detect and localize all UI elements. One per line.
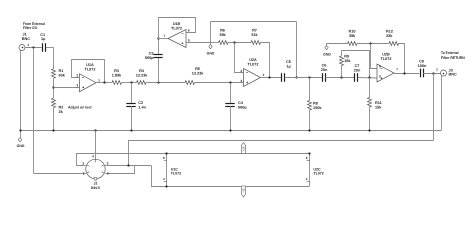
capacitor C6 — [322, 73, 324, 82]
resistor R2 adjust — [52, 98, 56, 108]
svg-text:GND: GND — [17, 144, 25, 148]
svg-text:4: 4 — [92, 155, 94, 159]
node gnd rail taps — [19, 129, 21, 131]
svg-text:C7: C7 — [355, 64, 360, 68]
ground G1 — [20, 131, 22, 138]
wire R10 to R12 — [357, 43, 389, 45]
wire U1B output to node — [158, 38, 168, 40]
svg-text:R12: R12 — [386, 29, 393, 33]
svg-text:R2: R2 — [59, 106, 64, 110]
svg-text:39k: 39k — [349, 34, 356, 38]
node C2 tap — [130, 81, 132, 83]
svg-text:R8: R8 — [313, 101, 318, 105]
svg-text:5: 5 — [107, 162, 109, 166]
ground G2 — [210, 42, 212, 44]
ground G3 — [326, 43, 328, 45]
svg-text:GND: GND — [323, 53, 331, 57]
wire return tap down to return rail — [433, 73, 435, 141]
resistor R8 — [309, 78, 311, 101]
wire R12 to U2B output — [399, 44, 405, 74]
resistor R5 — [185, 81, 194, 85]
node C3 tap — [157, 81, 159, 83]
svg-text:2: 2 — [240, 69, 242, 73]
resistor R3 — [112, 81, 122, 85]
svg-text:5: 5 — [188, 38, 190, 42]
svg-text:C5: C5 — [286, 60, 291, 64]
wire node to U1A pin3 — [54, 87, 80, 89]
svg-text:DIN-5: DIN-5 — [91, 186, 100, 190]
wire U1A feedback loop — [72, 60, 105, 83]
svg-text:39k: 39k — [219, 33, 226, 37]
svg-text:Filter GO: Filter GO — [23, 26, 37, 30]
wire R7 to U2A output — [261, 43, 270, 78]
wire C3 branch vertical — [158, 58, 160, 83]
capacitor C8 — [420, 69, 422, 78]
svg-text:R1: R1 — [59, 69, 64, 73]
svg-text:13.23k: 13.23k — [192, 72, 205, 76]
svg-text:20n: 20n — [321, 68, 328, 72]
op-amp U1B TL072 mirrored — [168, 30, 186, 48]
svg-text:R9: R9 — [344, 54, 349, 58]
svg-text:U1B: U1B — [173, 22, 181, 26]
svg-text:15k: 15k — [375, 106, 382, 110]
svg-text:6: 6 — [188, 28, 190, 32]
svg-text:1: 1 — [436, 68, 438, 72]
wire din top pin to ground rail — [95, 131, 97, 160]
wire U1B feedback loop — [159, 18, 196, 39]
connector J3 BNC — [441, 70, 447, 76]
svg-text:100n: 100n — [418, 64, 427, 68]
op-amp U1C power pins — [166, 154, 168, 187]
svg-text:60k: 60k — [59, 73, 66, 77]
resistor R7 — [251, 41, 261, 45]
capacitor C7 — [354, 73, 356, 82]
wire R6 to R7 — [228, 42, 251, 44]
svg-text:15k: 15k — [344, 59, 351, 63]
svg-text:R10: R10 — [349, 29, 356, 33]
svg-text:U2A: U2A — [249, 58, 257, 62]
svg-text:C6: C6 — [322, 63, 327, 67]
wire U2B output — [394, 73, 419, 75]
svg-text:1.4n: 1.4n — [138, 106, 146, 110]
svg-text:1: 1 — [83, 172, 85, 176]
resistor R4 — [137, 81, 146, 85]
svg-text:TL072: TL072 — [171, 172, 181, 176]
svg-text:R11: R11 — [375, 101, 382, 105]
wire din pin1 to input column — [34, 173, 86, 175]
svg-text:TL072: TL072 — [171, 26, 182, 30]
resistor R9 — [341, 66, 343, 78]
wire J1 to C1 — [25, 47, 42, 49]
wire C1 to R1 top — [46, 47, 54, 49]
wire R8 to ground rail — [309, 110, 311, 131]
svg-text:5: 5 — [379, 74, 381, 78]
svg-text:13.23k: 13.23k — [136, 73, 149, 77]
wire R11 to ground rail — [369, 107, 371, 131]
wire C6 to C7 — [325, 77, 354, 79]
op-amp U2B TL072 — [377, 64, 394, 82]
svg-text:7: 7 — [396, 68, 398, 72]
svg-text:U2C: U2C — [313, 167, 321, 171]
wire R5 to U2A — [195, 82, 244, 84]
node R11 tap — [368, 76, 370, 78]
resistor R6 — [219, 41, 228, 45]
svg-text:3: 3 — [107, 172, 109, 176]
svg-text:J2: J2 — [94, 182, 98, 186]
capacitor C3 — [153, 54, 162, 56]
resistor R1 — [52, 69, 56, 79]
op-amp U1A TL072 — [80, 74, 97, 92]
connector J2 DIN-5 — [86, 159, 105, 178]
node top rail tap — [295, 76, 297, 78]
node U1A output — [103, 81, 105, 83]
svg-text:1: 1 — [263, 73, 265, 77]
wire input node down to DIN pin1 — [33, 48, 35, 174]
svg-text:150k: 150k — [313, 106, 322, 110]
svg-text:1µ: 1µ — [41, 37, 45, 41]
power flag +15 — [241, 143, 245, 154]
wire top rail left drop — [210, 22, 212, 43]
svg-text:-15: -15 — [241, 188, 245, 193]
svg-text:C3: C3 — [149, 52, 154, 56]
node C4 tap — [229, 81, 231, 83]
wire C5 to C6 — [285, 77, 322, 79]
wire ground rail — [20, 130, 441, 132]
node J3 return tap — [432, 72, 434, 74]
svg-text:7: 7 — [163, 34, 165, 38]
svg-text:C8: C8 — [419, 59, 424, 63]
svg-text:1µ: 1µ — [286, 64, 290, 68]
wire gnd to R10 — [327, 43, 348, 45]
svg-text:6: 6 — [379, 64, 381, 68]
node R12 tap on output — [403, 72, 405, 74]
svg-text:TL072: TL072 — [313, 172, 323, 176]
node input junction — [32, 46, 34, 48]
capacitor C4 — [230, 83, 232, 103]
wire top rail right drop — [296, 22, 298, 78]
svg-text:Filter RETURN: Filter RETURN — [441, 56, 465, 60]
wire R4 to R5 — [146, 82, 185, 84]
wire return rail — [105, 165, 151, 167]
svg-text:3: 3 — [76, 84, 78, 88]
node U1B output — [157, 37, 159, 39]
power flag -15 — [241, 186, 245, 197]
svg-text:BNC: BNC — [449, 72, 457, 76]
svg-text:R5: R5 — [195, 67, 200, 71]
resistor R11 — [369, 78, 371, 98]
node R6 R7 junction — [233, 41, 235, 43]
node U1A noninverting input — [52, 86, 54, 88]
svg-text:U2B: U2B — [382, 52, 390, 56]
svg-text:3: 3 — [240, 79, 242, 83]
svg-text:GND: GND — [207, 51, 215, 55]
svg-text:1: 1 — [27, 43, 29, 47]
wire vminus rail — [106, 166, 135, 174]
svg-text:560p: 560p — [238, 106, 247, 110]
svg-text:1: 1 — [98, 78, 100, 82]
wire R9 bridge over C7 — [342, 51, 370, 78]
svg-text:U1C: U1C — [171, 167, 179, 171]
wire C8 to J3 — [423, 73, 440, 75]
wire U1A output — [96, 82, 112, 84]
svg-text:U1A: U1A — [86, 63, 94, 67]
capacitor C5 — [281, 73, 283, 82]
op-amp U2C power pins — [309, 154, 311, 187]
svg-text:R6: R6 — [220, 28, 225, 32]
wire vplus rail — [77, 154, 310, 166]
svg-text:To External: To External — [441, 51, 459, 55]
svg-text:R7: R7 — [252, 28, 257, 32]
wire junction down to U2B pin6 — [371, 44, 378, 69]
wire J3 shield down — [441, 76, 442, 78]
node R10 R12 junction — [369, 42, 371, 44]
wire gnd node to R6 — [211, 42, 219, 44]
connector J1 BNC — [19, 45, 25, 51]
wire C7 to U2B — [358, 77, 377, 80]
wire top rail — [211, 21, 297, 23]
svg-text:C2: C2 — [138, 101, 143, 105]
wire R2 to ground rail — [53, 108, 55, 131]
capacitor C2 — [131, 83, 133, 103]
resistor R10 — [348, 42, 358, 46]
wire U1B pin5 to gnd node — [186, 42, 211, 44]
svg-text:+15: +15 — [241, 146, 245, 151]
svg-text:TL072: TL072 — [85, 68, 96, 72]
svg-text:BNC: BNC — [22, 37, 30, 41]
node R9 tap — [340, 76, 342, 78]
node R8 tap — [308, 76, 310, 78]
wire U2A output — [261, 77, 282, 79]
svg-text:Adjust on test: Adjust on test — [68, 106, 92, 110]
svg-text:2: 2 — [76, 74, 78, 78]
op-amp U2A TL072 — [244, 69, 261, 87]
svg-text:51k: 51k — [251, 33, 258, 37]
svg-text:20n: 20n — [354, 68, 361, 72]
wire R1 to node — [53, 78, 55, 98]
svg-text:560p: 560p — [145, 56, 154, 60]
wire R3 to R4 — [122, 82, 137, 84]
wire J1 shield down — [19, 50, 22, 52]
resistor R12 — [389, 42, 399, 46]
node U2A output — [268, 76, 270, 78]
svg-text:R3: R3 — [114, 69, 119, 73]
svg-text:1.89k: 1.89k — [112, 73, 122, 77]
svg-text:TL072: TL072 — [381, 57, 392, 61]
svg-text:33k: 33k — [386, 34, 393, 38]
svg-text:2: 2 — [82, 162, 84, 166]
capacitor C1 — [42, 43, 44, 52]
wire junction down to U2A pin2 — [235, 43, 244, 73]
svg-text:TL072: TL072 — [248, 62, 259, 66]
